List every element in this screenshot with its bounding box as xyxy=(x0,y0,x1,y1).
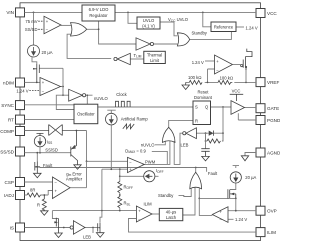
wire PWM out to OR-C xyxy=(143,141,170,164)
comparator U18 OVP xyxy=(212,207,247,223)
svg-text:AGND: AGND xyxy=(267,150,280,155)
transistor Q5 PMOS OVP pullup xyxy=(228,189,236,198)
pin VREF xyxy=(256,78,279,87)
svg-text:RSL: RSL xyxy=(124,201,131,207)
buffer U19 LEB blank xyxy=(70,221,91,240)
wire thermal inverter to OR-A input xyxy=(67,34,111,58)
driver U14 gate xyxy=(230,89,245,115)
svg-text:75 mV: 75 mV xyxy=(25,19,37,24)
svg-text:Latch: Latch xyxy=(166,215,177,220)
svg-text:PWM: PWM xyxy=(145,160,156,165)
pin GATE xyxy=(256,104,279,113)
pin VCC xyxy=(256,9,277,18)
svg-text:Fault: Fault xyxy=(43,163,53,168)
wire PMOS drain to OVP line xyxy=(235,198,237,210)
BLOCKS xyxy=(16,5,257,240)
comparator U12 PWM xyxy=(125,148,155,172)
node VIN/20uA tap xyxy=(33,12,35,14)
wire Reference to 1.24V label xyxy=(236,26,244,28)
wire IOFF lead xyxy=(120,175,159,177)
resistor R4 RSL xyxy=(118,197,131,208)
comparator U8 nDIM xyxy=(16,78,60,96)
box U7 Reference xyxy=(211,22,258,32)
svg-text:LEB: LEB xyxy=(181,142,189,147)
wire EA output up to PWM minus xyxy=(70,161,87,187)
svg-text:40-µs: 40-µs xyxy=(166,210,177,215)
inverter U15 LEB xyxy=(181,128,197,148)
wire M2 drain elbow xyxy=(100,211,102,223)
svg-text:Standby: Standby xyxy=(192,30,208,35)
node UVLO tap xyxy=(127,12,129,14)
wire inverter3 out to Standby OR xyxy=(154,43,178,45)
svg-text:DMAX = 0.9: DMAX = 0.9 xyxy=(125,148,146,154)
wire OVP pin to comparator xyxy=(228,210,256,212)
label Standby2 xyxy=(158,193,174,198)
inverter U9 nUVLO xyxy=(69,89,109,101)
wire fault OR to fault NMOS gate xyxy=(40,168,207,172)
wire Q to gate driver xyxy=(211,106,232,108)
box U3 UVLO 4.1V xyxy=(137,17,160,29)
svg-text:IADJ: IADJ xyxy=(4,193,14,198)
wire to UVLO box xyxy=(128,12,137,23)
resistor R2 R xyxy=(37,195,48,215)
current source I5 20uA IADJ xyxy=(230,172,256,183)
transistor Q3 PNP SS clamp xyxy=(71,131,81,170)
svg-text:1.24 V: 1.24 V xyxy=(246,26,258,31)
pin RT xyxy=(8,115,25,124)
wire nDIM xyxy=(25,81,41,83)
svg-text:S: S xyxy=(195,105,198,110)
wire CSP to EA xyxy=(25,181,53,183)
wire nUVLO to OR-C xyxy=(155,141,165,145)
resistor R5 LEB xyxy=(207,139,220,143)
svg-text:VIN: VIN xyxy=(6,10,14,15)
svg-text:Limit: Limit xyxy=(150,58,160,63)
svg-text:SS/SD: SS/SD xyxy=(25,27,38,32)
wire DMAX clamp line xyxy=(152,151,168,164)
current source I3 ISS xyxy=(34,133,52,152)
resistor R6 100k to gnd xyxy=(182,75,202,90)
svg-text:VCC UVLO: VCC UVLO xyxy=(168,17,189,23)
or-gate G4 fault xyxy=(190,171,218,189)
resistor R7 100k feedback xyxy=(218,76,233,85)
pin ILIM xyxy=(256,228,276,237)
wire comp2 out to OR-A xyxy=(61,24,71,26)
svg-text:Fault: Fault xyxy=(208,171,218,176)
wire LEB inverter output to OR-C xyxy=(174,133,183,164)
svg-text:R: R xyxy=(37,202,40,207)
wire diode node to LEB inverter xyxy=(196,132,223,134)
svg-text:ISS: ISS xyxy=(47,139,52,145)
or-gate G3 PWM reset xyxy=(141,127,175,147)
wire comp1 hysteresis feedback xyxy=(39,68,63,95)
amplifier U11 gm error xyxy=(53,171,83,198)
transistor Q6 NMOS slope M1 xyxy=(54,218,62,238)
transistor Q7 NMOS LEB M2 xyxy=(96,223,104,237)
svg-text:ILIM: ILIM xyxy=(267,230,276,235)
IC boundary xyxy=(20,3,261,241)
wire SYNC to oscillator xyxy=(25,104,75,106)
wire Standby out to Reference xyxy=(190,32,232,40)
flip-flop U13 reset dominant xyxy=(193,90,213,125)
wire 20uA OVP source stubs xyxy=(230,166,239,190)
wire LEB cap branch xyxy=(205,133,207,149)
wire OR-C out to flip-flop R xyxy=(169,120,193,127)
svg-text:Regulator: Regulator xyxy=(89,13,108,18)
wire OR-A out node xyxy=(87,21,136,44)
svg-text:GATE: GATE xyxy=(267,106,279,111)
svg-text:SS/SD: SS/SD xyxy=(45,147,58,152)
pin AGND xyxy=(256,148,281,157)
wire 8R node to EA plus xyxy=(41,191,53,196)
regulator U1 6.9-V LDO xyxy=(82,5,115,21)
ground xyxy=(96,233,104,238)
svg-text:TLIM: TLIM xyxy=(134,53,142,59)
pin IADJ xyxy=(4,191,24,200)
wire PGND xyxy=(238,113,256,120)
wire IADJ to 8R xyxy=(25,194,28,196)
pin nDIM xyxy=(3,78,24,87)
svg-text:Oscillator: Oscillator xyxy=(77,112,95,117)
svg-text:1.24 V: 1.24 V xyxy=(16,88,28,93)
svg-text:VREF: VREF xyxy=(267,80,279,85)
svg-text:Clock: Clock xyxy=(116,92,127,97)
svg-text:OVP: OVP xyxy=(267,209,277,214)
diode D2 LEB xyxy=(209,131,214,136)
svg-text:Amplifier: Amplifier xyxy=(66,177,83,182)
box U10 Oscillator xyxy=(74,104,98,124)
wire LEB sense vertical xyxy=(222,107,224,141)
svg-text:Reference: Reference xyxy=(214,25,234,30)
transistor Q4 PMOS VREF xyxy=(233,49,253,70)
wire UVLO out to Standby OR xyxy=(160,22,177,36)
wire comp1 out to inverter1 xyxy=(61,87,69,96)
current source I2 artificial ramp xyxy=(106,110,149,129)
pin SYNC xyxy=(1,101,24,110)
wire IS line xyxy=(25,227,71,229)
wire slope line down to M1 drain xyxy=(52,211,58,219)
wire slope compensation line xyxy=(52,210,136,212)
wire ROFF branch xyxy=(119,169,121,210)
svg-text:ILIM: ILIM xyxy=(144,202,153,207)
box U17 40us latch xyxy=(159,208,183,220)
node Reference tap xyxy=(202,12,204,14)
svg-text:100 kΩ: 100 kΩ xyxy=(188,75,201,80)
pin CSP xyxy=(5,178,25,187)
svg-text:Thermal: Thermal xyxy=(147,53,162,58)
svg-text:(4.1 V): (4.1 V) xyxy=(142,24,155,29)
svg-text:100 kΩ: 100 kΩ xyxy=(220,76,233,81)
wire VREF feedback node xyxy=(208,69,215,82)
svg-text:nUVLO: nUVLO xyxy=(141,142,155,147)
wire COMP to clamp to PWM minus xyxy=(25,131,128,162)
wire inverter1 out nUVLO xyxy=(86,95,93,104)
svg-text:1.24 V: 1.24 V xyxy=(192,60,204,65)
svg-text:SYNC: SYNC xyxy=(1,103,14,108)
svg-text:VCC: VCC xyxy=(232,89,241,94)
svg-text:Dominant: Dominant xyxy=(194,95,213,100)
svg-text:COMP: COMP xyxy=(0,129,14,134)
capacitor C1 LEB xyxy=(201,149,209,161)
transistor Q1 PMOS nDIM xyxy=(33,64,39,82)
wire ILIM comp out to latch xyxy=(152,213,159,215)
wire nUVLO wrap to oscillator xyxy=(56,95,74,109)
wire GATE xyxy=(245,107,257,109)
svg-text:1.24 V: 1.24 V xyxy=(235,217,247,222)
ground xyxy=(202,156,210,161)
clamp D1 bowtie on COMP xyxy=(49,125,63,136)
ground xyxy=(74,165,81,170)
svg-text:8R: 8R xyxy=(30,188,35,193)
wire ramp node xyxy=(102,125,128,211)
pin VIN xyxy=(6,8,24,17)
wire clock line to flip-flop S xyxy=(98,106,193,108)
current source I1 20uA VIN xyxy=(28,45,53,64)
svg-text:6.9-V LDO: 6.9-V LDO xyxy=(89,7,110,12)
wire VIN to LDO to VCC xyxy=(25,11,257,13)
svg-text:Artificial Ramp: Artificial Ramp xyxy=(121,116,149,121)
svg-text:20 µA: 20 µA xyxy=(42,50,53,55)
ground xyxy=(41,211,49,216)
ground xyxy=(55,233,63,238)
svg-text:VCC: VCC xyxy=(267,11,277,16)
svg-text:PGND: PGND xyxy=(267,118,280,123)
clock waveform xyxy=(116,92,131,107)
svg-text:20 µA: 20 µA xyxy=(245,175,256,180)
comparator U16 ILIM xyxy=(136,202,152,222)
inverter U5 thermal xyxy=(114,53,142,65)
svg-text:nDIM: nDIM xyxy=(3,80,14,85)
wire ILIM pin to comparator plus xyxy=(129,219,257,233)
or-gate G2 standby xyxy=(177,30,207,46)
svg-text:IOFF: IOFF xyxy=(156,168,164,174)
wire VIN down to 20uA source xyxy=(33,12,35,45)
pin COMP xyxy=(0,127,24,136)
resistor R3 ROFF xyxy=(118,182,133,193)
ground xyxy=(182,82,189,89)
inverter U4 xyxy=(136,38,153,50)
wire PMOS2 drain to VREF rail xyxy=(245,68,247,83)
wire 1.24V to VREF comparator + xyxy=(205,60,215,62)
svg-text:R: R xyxy=(195,119,198,124)
wire SS/SD line xyxy=(25,152,71,154)
label SS/SD net xyxy=(45,147,58,152)
pin PGND xyxy=(256,116,281,125)
ground xyxy=(34,173,42,178)
svg-text:CSP: CSP xyxy=(5,180,14,185)
wire OVP comp out to fault OR xyxy=(199,188,212,215)
wire OVP pullup gate line xyxy=(199,197,236,199)
wire thermal box to inverter xyxy=(130,58,144,60)
label VCC UVLO xyxy=(168,17,189,23)
svg-text:SS/SD: SS/SD xyxy=(0,149,14,154)
pin OVP xyxy=(256,206,277,215)
or-gate G1 shutdown xyxy=(71,23,87,36)
current source I4 IOFF xyxy=(144,168,164,182)
svg-text:UVLO: UVLO xyxy=(143,18,155,23)
wire RT to oscillator xyxy=(25,119,75,121)
svg-text:nUVLO: nUVLO xyxy=(94,96,108,101)
wire OVP 1.24V ref xyxy=(228,218,234,220)
wire LEB buffer out to M2 gate xyxy=(85,227,98,229)
resistor R1 8R xyxy=(27,188,41,197)
wire latch out to fault OR xyxy=(183,188,195,216)
svg-text:Standby: Standby xyxy=(158,193,174,198)
pin IS xyxy=(10,223,25,232)
pin SS/SD xyxy=(0,147,24,156)
svg-text:LEB: LEB xyxy=(83,235,91,240)
wire AGND xyxy=(245,153,256,156)
ground AGND symbol xyxy=(241,156,248,161)
comparator U13b VREF xyxy=(192,55,233,74)
wire Standby elbow to fault OR xyxy=(179,189,192,197)
svg-text:ROFF: ROFF xyxy=(124,184,133,190)
wire LEB resistor loop xyxy=(206,133,224,141)
comparator U2 75mV/SS-SD xyxy=(25,16,61,33)
transistor Q2 fault NMOS xyxy=(34,152,54,178)
box U6 Thermal Limit xyxy=(144,51,166,63)
wire to Reference box xyxy=(203,12,211,26)
svg-text:IS: IS xyxy=(10,225,14,230)
svg-text:RT: RT xyxy=(8,117,14,122)
wire VREF rail xyxy=(186,81,256,83)
